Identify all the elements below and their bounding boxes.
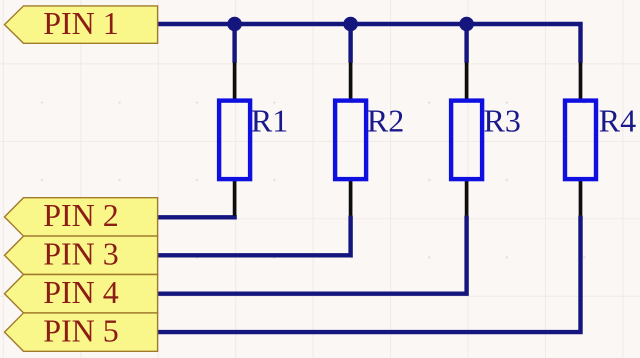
svg-text:PIN 3: PIN 3 bbox=[43, 236, 119, 272]
junction: top bus at R1 bbox=[227, 17, 242, 32]
svg-text:R2: R2 bbox=[367, 102, 404, 138]
port PIN 4 bbox=[5, 274, 158, 313]
resistor R2 pin 1 (top lead) bbox=[349, 63, 353, 102]
svg-text:R1: R1 bbox=[251, 102, 288, 138]
port PIN 5 bbox=[5, 312, 158, 351]
resistor R1 pin 2 (bottom lead) bbox=[233, 179, 237, 216]
resistor R4 pin 1 (top lead) bbox=[579, 63, 583, 102]
resistor R1 pin 1 (top lead) bbox=[233, 63, 237, 102]
junction: top bus at R2 bbox=[343, 17, 358, 32]
svg-text:PIN 4: PIN 4 bbox=[43, 274, 119, 310]
svg-text:PIN 5: PIN 5 bbox=[43, 312, 119, 348]
port PIN 3 bbox=[5, 236, 158, 275]
resistor R2 body bbox=[335, 101, 366, 180]
wire: vertical stub from top bus to resistor R1 pin bbox=[232, 24, 236, 63]
wire: PIN 3 net from port PIN 3 to resistor R2 bottom pin bbox=[158, 216, 351, 256]
svg-text:R3: R3 bbox=[484, 102, 521, 138]
resistor R3 pin 1 (top lead) bbox=[465, 63, 469, 102]
wire: PIN 5 net from port PIN 5 to resistor R4 bottom pin bbox=[158, 216, 581, 333]
port PIN 2 bbox=[5, 197, 158, 236]
resistor R4 pin 2 (bottom lead) bbox=[579, 179, 583, 216]
svg-text:R4: R4 bbox=[599, 102, 636, 138]
resistor R2 pin 2 (bottom lead) bbox=[349, 179, 353, 216]
wire: vertical stub from top bus to resistor R2 pin bbox=[348, 24, 352, 63]
wire: PIN 1 top bus from port PIN 1 to resistor R4 (corner at top right) bbox=[158, 24, 581, 63]
junction: top bus at R3 bbox=[459, 17, 474, 32]
wire: vertical stub from top bus to resistor R3 pin bbox=[464, 24, 468, 63]
resistor R4 body bbox=[565, 101, 596, 180]
resistor R3 body bbox=[451, 101, 482, 180]
resistor R3 pin 2 (bottom lead) bbox=[465, 179, 469, 216]
resistor R1 body bbox=[219, 101, 250, 180]
wire: PIN 4 net from port PIN 4 to resistor R3 bottom pin bbox=[158, 216, 467, 294]
svg-text:PIN 1: PIN 1 bbox=[43, 5, 119, 41]
wire: PIN 2 net from port PIN 2 to resistor R1 bottom pin bbox=[158, 215, 237, 219]
svg-text:PIN 2: PIN 2 bbox=[43, 197, 119, 233]
port PIN 1 bbox=[5, 5, 158, 43]
